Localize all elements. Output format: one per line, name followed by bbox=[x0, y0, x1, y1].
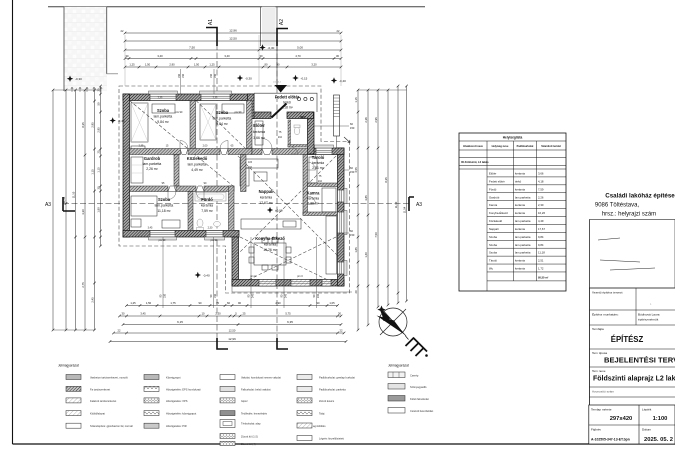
furniture konyha counter top bbox=[241, 219, 301, 229]
svg-text:Szárazépítés: gipszkarton fal,: Szárazépítés: gipszkarton fal, normál bbox=[90, 424, 133, 428]
svg-text:Helyiséglista: Helyiséglista bbox=[503, 136, 523, 140]
svg-text:1,25: 1,25 bbox=[129, 63, 135, 67]
svg-text:90: 90 bbox=[317, 301, 320, 305]
svg-text:BEJELENTÉSI TERV: BEJELENTÉSI TERV bbox=[604, 356, 675, 365]
svg-text:Előtér: Előtér bbox=[253, 123, 265, 128]
site walkway gray strip bbox=[262, 7, 276, 46]
svg-text:Vakolat: homlokzati nemes vako: Vakolat: homlokzati nemes vakolat bbox=[241, 376, 281, 380]
svg-text:90: 90 bbox=[277, 63, 280, 67]
door arc elotér bbox=[262, 139, 272, 149]
svg-text:Hőszigetelés: PIR: Hőszigetelés: PIR bbox=[166, 424, 187, 428]
svg-text:2,90: 2,90 bbox=[275, 301, 281, 305]
svg-text:pm 0: pm 0 bbox=[250, 275, 256, 278]
svg-text:Térburkolat: alap: Térburkolat: alap bbox=[241, 422, 261, 426]
dimension chain right col4 bbox=[387, 90, 389, 305]
svg-text:22: 22 bbox=[340, 329, 343, 333]
svg-text:3,66 m²: 3,66 m² bbox=[253, 136, 265, 140]
window W8 nappali right bbox=[338, 212, 345, 233]
site border vertical right bbox=[106, 7, 108, 74]
interior wall wc box bbox=[288, 120, 291, 147]
svg-text:pm 90: pm 90 bbox=[211, 239, 218, 242]
furniture eloter closet bbox=[255, 121, 263, 145]
dimension chain right col6 bbox=[406, 86, 408, 301]
window W9 konyha right bbox=[338, 262, 345, 274]
door arc szoba2 bbox=[220, 141, 228, 149]
furniture szoba2 wardrobe bbox=[200, 104, 216, 140]
svg-text:Zúzott kő (4): Zúzott kő (4) bbox=[241, 442, 256, 446]
svg-text:30: 30 bbox=[260, 54, 263, 58]
svg-text:Jelmagyarázat: Jelmagyarázat bbox=[58, 364, 79, 368]
svg-text:4,49: 4,49 bbox=[538, 219, 544, 223]
svg-text:Kőzetgyapot: Kőzetgyapot bbox=[166, 376, 181, 380]
svg-text:1,80: 1,80 bbox=[96, 207, 100, 213]
svg-text:-0,40: -0,40 bbox=[339, 79, 346, 83]
svg-text:2,45: 2,45 bbox=[90, 297, 94, 303]
svg-text:9086 Töltéstava,: 9086 Töltéstava, bbox=[595, 203, 640, 209]
fixture toilet furdo bbox=[197, 219, 203, 227]
title subblock size/scale bbox=[589, 405, 675, 444]
svg-text:6,35: 6,35 bbox=[287, 320, 293, 324]
dimension chain top row3 bbox=[125, 49, 341, 51]
north arrow compass bbox=[377, 306, 409, 340]
svg-text:9,84 m²: 9,84 m² bbox=[157, 120, 169, 124]
svg-text:Fa tartószerkezet: Fa tartószerkezet bbox=[90, 387, 110, 391]
svg-text:Építész munkatárs:: Építész munkatárs: bbox=[592, 312, 619, 317]
exterior wall bottom-left bbox=[123, 231, 239, 238]
svg-text:Lépték: Lépték bbox=[642, 408, 652, 412]
svg-text:30: 30 bbox=[338, 312, 341, 316]
exterior wall konyha-left bbox=[232, 237, 239, 286]
signature box bbox=[590, 220, 675, 289]
svg-text:25: 25 bbox=[96, 150, 100, 153]
dimension chain bottom row5 bbox=[110, 341, 346, 343]
svg-text:9,84: 9,84 bbox=[538, 243, 544, 247]
gutter ladder rect bbox=[334, 95, 340, 136]
exterior wall top bbox=[123, 94, 254, 101]
svg-text:Padlóburkolat: greslap burkola: Padlóburkolat: greslap burkolat bbox=[319, 376, 355, 380]
window W10 kamra right bbox=[338, 190, 345, 202]
dimension chain bottom row1 bbox=[127, 305, 338, 307]
svg-text:30: 30 bbox=[126, 54, 129, 58]
svg-text:16,26 m²: 16,26 m² bbox=[263, 248, 277, 252]
svg-text:11,18: 11,18 bbox=[538, 251, 545, 255]
svg-text:Wc: Wc bbox=[489, 267, 494, 271]
svg-text:1,72: 1,72 bbox=[538, 267, 544, 271]
svg-text:Zúzott kő (1-2): Zúzott kő (1-2) bbox=[241, 435, 258, 439]
svg-text:150: 150 bbox=[350, 233, 355, 237]
svg-text:3,45: 3,45 bbox=[148, 227, 153, 230]
svg-text:12,50: 12,50 bbox=[229, 329, 236, 333]
door arc kamra bbox=[308, 196, 316, 204]
svg-text:3,40: 3,40 bbox=[224, 54, 230, 58]
svg-text:4,49 m²: 4,49 m² bbox=[191, 168, 203, 172]
svg-text:2,30: 2,30 bbox=[538, 203, 544, 207]
svg-text:Külső faburkolat: Külső faburkolat bbox=[410, 397, 429, 401]
svg-text:kerámia: kerámia bbox=[264, 243, 276, 247]
furniture szoba3 desk bbox=[162, 220, 180, 228]
svg-text:Nappali: Nappali bbox=[259, 189, 274, 194]
svg-text:95,50 m²: 95,50 m² bbox=[538, 275, 549, 279]
svg-text:Kitöltőfalazat: Kitöltőfalazat bbox=[90, 412, 105, 416]
svg-text:A2: A2 bbox=[279, 19, 285, 25]
terrace strip below konyha bbox=[232, 286, 352, 292]
svg-text:pm 90: pm 90 bbox=[176, 111, 183, 114]
svg-text:Tervlap mérete: Tervlap mérete bbox=[591, 408, 612, 412]
svg-text:20: 20 bbox=[96, 88, 100, 91]
svg-text:1:100: 1:100 bbox=[653, 416, 668, 422]
svg-text:150: 150 bbox=[182, 73, 185, 78]
svg-text:kerámia: kerámia bbox=[253, 130, 265, 134]
svg-text:-0,40: -0,40 bbox=[203, 274, 210, 278]
dashed diagonal szoba1 to kozlekedo bbox=[130, 101, 234, 187]
furniture kamra shelves bbox=[322, 188, 336, 212]
dimension chain right col2 bbox=[367, 90, 369, 325]
door arc szoba3 bbox=[168, 192, 176, 200]
svg-text:7,50: 7,50 bbox=[374, 232, 378, 238]
svg-text:térkő: térkő bbox=[283, 101, 291, 105]
svg-text:240: 240 bbox=[285, 293, 288, 298]
level marker +0,00 nappali bbox=[267, 207, 273, 213]
roof overhang dashed outline bbox=[119, 86, 350, 293]
svg-text:1,40: 1,40 bbox=[364, 252, 368, 258]
svg-text:t.: t. bbox=[650, 302, 652, 306]
svg-text:60: 60 bbox=[227, 301, 230, 305]
dimension chain top row2 12,50 bbox=[125, 40, 341, 42]
svg-text:Gipsz: Gipsz bbox=[241, 399, 248, 403]
furniture szoba2 bed bbox=[222, 104, 244, 113]
svg-text:Közlekedő: Közlekedő bbox=[187, 156, 208, 161]
fixture toilet wc bbox=[294, 127, 300, 135]
svg-text:lam.parketta: lam.parketta bbox=[515, 251, 531, 255]
svg-text:kerámia: kerámia bbox=[515, 203, 525, 207]
legend column 4 bbox=[297, 375, 312, 380]
svg-text:Közlekedő: Közlekedő bbox=[489, 219, 503, 223]
svg-text:75: 75 bbox=[216, 301, 219, 305]
svg-text:30: 30 bbox=[122, 312, 125, 316]
exterior wall right bbox=[338, 148, 345, 286]
furniture szoba1 bed bbox=[152, 104, 175, 113]
sheet left border bbox=[12, 0, 14, 444]
svg-text:25: 25 bbox=[243, 312, 246, 316]
svg-text:150: 150 bbox=[214, 293, 217, 298]
svg-text:90: 90 bbox=[199, 301, 202, 305]
svg-text:Falburkolat: belső vakolat: Falburkolat: belső vakolat bbox=[241, 387, 271, 391]
svg-text:kerámia: kerámia bbox=[201, 204, 213, 208]
window W2 top szoba2 bbox=[201, 94, 230, 101]
svg-text:-0,40: -0,40 bbox=[118, 119, 125, 123]
svg-text:2,35: 2,35 bbox=[158, 97, 163, 100]
svg-text:210: 210 bbox=[248, 166, 253, 169]
porch columns bbox=[297, 97, 300, 100]
svg-text:2,90: 2,90 bbox=[169, 63, 175, 67]
svg-text:11,10: 11,10 bbox=[71, 191, 75, 198]
svg-text:2025. 05. 2: 2025. 05. 2 bbox=[644, 437, 673, 443]
svg-text:Szoba: Szoba bbox=[157, 108, 170, 113]
svg-text:00.Földszint, L2 lakás: 00.Földszint, L2 lakás bbox=[461, 160, 489, 164]
svg-text:-0,30: -0,30 bbox=[245, 77, 252, 81]
interior wall above szoba3-furdo bbox=[130, 186, 169, 192]
furniture konyha counter right bbox=[326, 216, 337, 274]
svg-text:lam.parketta: lam.parketta bbox=[213, 117, 232, 121]
svg-text:1,05: 1,05 bbox=[329, 301, 335, 305]
svg-text:2,95: 2,95 bbox=[90, 122, 94, 128]
svg-text:7,59 m²: 7,59 m² bbox=[201, 209, 213, 213]
svg-text:90: 90 bbox=[238, 301, 241, 305]
svg-text:150: 150 bbox=[350, 126, 355, 130]
site border vertical left bbox=[63, 7, 65, 91]
furniture gardrob shelves bbox=[131, 157, 143, 183]
exterior wall left bbox=[123, 94, 130, 237]
svg-text:3,30: 3,30 bbox=[81, 209, 85, 215]
svg-text:Cserép: Cserép bbox=[410, 373, 419, 377]
dimension chain left col6 bbox=[100, 86, 102, 246]
furniture nappali sofa bbox=[240, 159, 278, 168]
svg-text:1,15: 1,15 bbox=[90, 169, 94, 175]
svg-text:Azonosító szám: Azonosító szám bbox=[592, 390, 614, 394]
row azonosito bbox=[590, 386, 675, 388]
svg-text:Légrés: kiszellőztetett: Légrés: kiszellőztetett bbox=[319, 437, 344, 441]
level marker -0,15 bbox=[292, 75, 298, 81]
interior wall furdo-nappali bbox=[229, 186, 235, 231]
level marker -0,30 top center bbox=[259, 44, 265, 50]
svg-text:240: 240 bbox=[317, 293, 320, 298]
svg-text:90: 90 bbox=[265, 63, 268, 67]
svg-text:Hőszigetelés: EPS homlokzati: Hőszigetelés: EPS homlokzati bbox=[166, 387, 201, 391]
svg-text:lam.parketta: lam.parketta bbox=[143, 162, 162, 166]
exterior wall step-top bbox=[308, 148, 345, 155]
svg-text:kerámia: kerámia bbox=[515, 227, 525, 231]
window W1 top szoba1 bbox=[150, 94, 176, 101]
svg-text:Szoba: Szoba bbox=[489, 251, 497, 255]
door arc szoba1 bbox=[180, 141, 188, 149]
svg-text:1,15: 1,15 bbox=[96, 167, 100, 173]
door arc wc bbox=[291, 147, 298, 154]
svg-text:lam.parketta: lam.parketta bbox=[155, 204, 174, 208]
dimension chain bottom row3 bbox=[123, 324, 341, 326]
row terv tipusa bbox=[590, 348, 675, 350]
interior wall szoba3-furdo bbox=[188, 192, 193, 231]
svg-text:Bódisová Laura: Bódisová Laura bbox=[638, 313, 660, 317]
svg-text:kerámia: kerámia bbox=[515, 267, 525, 271]
window W7 konyha terrace door c bbox=[322, 280, 331, 287]
row vezeto epitesz bbox=[590, 287, 675, 289]
furniture nappali table bbox=[254, 172, 267, 181]
dimension chain right col3 bbox=[377, 90, 379, 307]
svg-text:2,75: 2,75 bbox=[81, 282, 85, 288]
window W11 tarolo top bbox=[316, 148, 332, 155]
svg-text:11,54: 11,54 bbox=[402, 206, 406, 213]
svg-text:Szoba: Szoba bbox=[489, 243, 497, 247]
svg-text:4,18: 4,18 bbox=[538, 179, 544, 183]
extension marks bottom bbox=[162, 237, 164, 308]
interior wall tarolo-west bbox=[303, 155, 308, 216]
svg-text:kerámia: kerámia bbox=[515, 259, 525, 263]
svg-text:WC: WC bbox=[300, 116, 306, 120]
small landscape marks bbox=[71, 87, 102, 92]
dimension chain left col2 bbox=[65, 90, 67, 330]
svg-text:2,30: 2,30 bbox=[208, 227, 213, 230]
svg-text:8,35: 8,35 bbox=[81, 122, 85, 128]
svg-text:Hivatkozott neve: Hivatkozott neve bbox=[463, 145, 483, 148]
svg-text:17,67: 17,67 bbox=[538, 227, 545, 231]
fixture bathtub bbox=[195, 193, 226, 202]
dashed diagonal szoba2 bbox=[196, 101, 246, 150]
site walkway vertical line 2 bbox=[276, 7, 278, 86]
dimension chain top row1 12,96 bbox=[125, 32, 341, 34]
svg-text:7,59: 7,59 bbox=[538, 187, 544, 191]
window W6 konyha terrace door b bbox=[291, 280, 310, 287]
svg-text:Konyha-Étkező: Konyha-Étkező bbox=[489, 210, 508, 215]
svg-text:lam.parketta: lam.parketta bbox=[188, 163, 207, 167]
door funnels in interior walls bbox=[168, 149, 272, 192]
svg-text:2,30: 2,30 bbox=[215, 312, 221, 316]
svg-text:2,26: 2,26 bbox=[538, 195, 544, 199]
svg-text:kerámia: kerámia bbox=[515, 187, 525, 191]
svg-text:30: 30 bbox=[96, 186, 100, 189]
svg-text:Talaj: Talaj bbox=[319, 412, 325, 416]
svg-text:210: 210 bbox=[318, 180, 323, 183]
svg-text:pm 0: pm 0 bbox=[297, 275, 303, 278]
svg-text:4,18 m²: 4,18 m² bbox=[281, 106, 293, 110]
furniture szoba3 bed bbox=[131, 196, 157, 216]
svg-text:Terv neve: Terv neve bbox=[592, 369, 606, 373]
svg-text:20: 20 bbox=[354, 290, 358, 293]
svg-text:11,54: 11,54 bbox=[62, 196, 66, 203]
svg-text:8,35: 8,35 bbox=[384, 177, 388, 183]
level marker -0,40 top right bbox=[331, 77, 337, 83]
dimension chain top row4 bbox=[125, 58, 341, 60]
exterior wall entrance-front left bbox=[252, 112, 271, 119]
svg-text:Gardrób: Gardrób bbox=[489, 195, 500, 199]
svg-text:kerámia: kerámia bbox=[312, 161, 324, 165]
svg-text:Szőnyegpadló: Szőnyegpadló bbox=[410, 385, 427, 389]
interior wall gardrob-kozlekedo bbox=[174, 155, 179, 187]
site border horizontal stub bbox=[107, 73, 118, 75]
svg-text:4,70: 4,70 bbox=[295, 54, 301, 58]
svg-text:-0,15: -0,15 bbox=[301, 77, 308, 81]
interior wall szoba2-elotér bbox=[247, 101, 253, 149]
exterior wall entrance-front right bbox=[287, 112, 314, 119]
entrance arrow bbox=[275, 85, 288, 93]
svg-text:297x420: 297x420 bbox=[610, 416, 633, 422]
svg-text:1,25: 1,25 bbox=[130, 301, 136, 305]
level marker -0,30 row bbox=[237, 75, 243, 81]
svg-text:115: 115 bbox=[248, 161, 253, 164]
svg-text:2,30 m²: 2,30 m² bbox=[307, 202, 319, 206]
row tervfajta bbox=[590, 324, 675, 326]
dimension chain left col5 bbox=[94, 90, 96, 330]
svg-text:2,95: 2,95 bbox=[374, 117, 378, 123]
svg-text:12,96: 12,96 bbox=[229, 29, 237, 33]
svg-text:-0,30: -0,30 bbox=[268, 46, 275, 50]
svg-text:±0,00: ±0,00 bbox=[275, 209, 283, 213]
svg-text:2,51: 2,51 bbox=[538, 259, 544, 263]
svg-text:22: 22 bbox=[118, 329, 121, 333]
svg-text:Helyiség neve: Helyiség neve bbox=[492, 145, 509, 148]
svg-text:2,51 m²: 2,51 m² bbox=[312, 166, 324, 170]
svg-text:Csiszolt betonfelület: Csiszolt betonfelület bbox=[410, 409, 433, 413]
svg-text:1,25: 1,25 bbox=[209, 63, 215, 67]
svg-text:10: 10 bbox=[202, 312, 205, 316]
svg-text:12,50: 12,50 bbox=[229, 37, 237, 41]
svg-text:2,35: 2,35 bbox=[139, 145, 144, 148]
svg-text:3,85: 3,85 bbox=[364, 195, 368, 201]
roof corner arrow bbox=[344, 137, 350, 143]
window W5 konyha terrace door a bbox=[259, 280, 276, 287]
dashed diagonal konyha X b bbox=[240, 237, 336, 284]
svg-text:2,00: 2,00 bbox=[203, 145, 208, 148]
svg-text:2,36: 2,36 bbox=[364, 117, 368, 123]
level marker -0,40 left bbox=[110, 117, 116, 123]
dimension chain top row5 bbox=[125, 66, 341, 68]
svg-text:2,35: 2,35 bbox=[213, 97, 218, 100]
section line A3 bbox=[63, 203, 409, 205]
svg-text:1,75: 1,75 bbox=[170, 301, 176, 305]
entrance door leaf bbox=[272, 104, 287, 118]
svg-text:1,50: 1,50 bbox=[194, 63, 200, 67]
svg-text:Szoba: Szoba bbox=[158, 197, 171, 202]
top extension lines bbox=[124, 35, 126, 86]
svg-text:A3: A3 bbox=[45, 202, 51, 208]
svg-text:5,00: 5,00 bbox=[297, 46, 303, 50]
row terv neve bbox=[590, 366, 675, 368]
svg-text:lam.parketta: lam.parketta bbox=[515, 235, 531, 239]
svg-text:4,55: 4,55 bbox=[354, 167, 358, 173]
svg-text:Padlóburkolat: parketta: Padlóburkolat: parketta bbox=[319, 387, 346, 391]
svg-text:240: 240 bbox=[252, 293, 255, 298]
svg-text:150: 150 bbox=[350, 170, 355, 174]
level marker -0,40 bottom bbox=[195, 272, 201, 278]
svg-text:9,84: 9,84 bbox=[538, 235, 544, 239]
svg-text:ÉPÍTÉSZ: ÉPÍTÉSZ bbox=[611, 335, 644, 344]
svg-text:A3: A3 bbox=[416, 202, 422, 208]
dimension chain bottom row4 bbox=[114, 332, 345, 334]
svg-text:építészmérnök: építészmérnök bbox=[638, 318, 659, 322]
svg-text:lam.parketta: lam.parketta bbox=[515, 219, 531, 223]
door arc tarolo bbox=[308, 162, 316, 170]
dimension chain left col4 bbox=[84, 90, 86, 330]
svg-text:Fedett előtér: Fedett előtér bbox=[275, 95, 300, 100]
svg-text:ag.feltöltés: ag.feltöltés bbox=[313, 424, 326, 428]
interior wall kamra-south bbox=[303, 212, 338, 216]
sheet bottom border bbox=[13, 443, 675, 445]
faint stamp marks bbox=[598, 238, 655, 270]
legend column 5 bbox=[388, 372, 405, 378]
svg-text:pm 90: pm 90 bbox=[235, 111, 242, 114]
svg-text:5,75: 5,75 bbox=[285, 312, 291, 316]
svg-text:Falazott tartószerkezet: Falazott tartószerkezet bbox=[90, 399, 117, 403]
fedett elotér porch outline bbox=[254, 93, 317, 112]
top site boundary line bbox=[48, 6, 425, 8]
svg-text:Dátum: Dátum bbox=[642, 428, 652, 432]
site walkway vertical line 1 bbox=[260, 7, 262, 46]
svg-text:Földszinti alaprajz L2 lak: Földszinti alaprajz L2 lak bbox=[593, 376, 675, 383]
svg-text:11,18 m²: 11,18 m² bbox=[157, 209, 171, 213]
svg-text:pm 90: pm 90 bbox=[159, 239, 166, 242]
svg-text:50: 50 bbox=[96, 102, 100, 105]
svg-text:Családi lakóház építése: Családi lakóház építése bbox=[605, 193, 675, 200]
svg-text:Fürdő: Fürdő bbox=[201, 197, 213, 202]
svg-text:1,85: 1,85 bbox=[354, 247, 358, 253]
svg-text:Előtér: Előtér bbox=[489, 172, 496, 176]
svg-text:Tároló: Tároló bbox=[489, 259, 497, 263]
svg-text:Számított terület: Számított terület bbox=[541, 145, 561, 148]
interior wall kozlekedo-nappali bbox=[241, 155, 247, 192]
svg-text:3,45: 3,45 bbox=[140, 312, 146, 316]
svg-text:kerámia: kerámia bbox=[515, 211, 525, 215]
furniture szoba1 wardrobe bbox=[131, 103, 337, 274]
section line A1 bbox=[216, 27, 218, 349]
